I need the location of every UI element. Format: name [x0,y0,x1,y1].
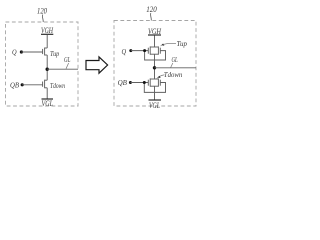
wire GL output (right) [155,67,197,69]
svg-text:Tup: Tup [50,50,60,58]
wire GL output (left) [47,68,78,70]
junction node (left output) [46,68,49,71]
wire Tdown source to VGL [46,88,48,99]
wire QB to Tdown gate [22,84,42,86]
wire VGH to Tup (right) [154,36,156,48]
svg-text:Q: Q [122,47,127,56]
wire Q to gates (right) [131,50,149,52]
svg-text:120: 120 [37,5,48,15]
transistor Tup dual (right) [148,46,160,54]
svg-text:Tdown: Tdown [164,71,183,79]
VGL supply (left) [42,98,54,100]
svg-text:Tup: Tup [177,40,188,48]
svg-text:Tdown: Tdown [50,82,65,90]
VGL supply (right) [149,99,162,101]
gate loop wire Tdown (right) [144,83,165,93]
leader arrow Tup (right) [164,43,176,44]
wire QB to gates (right) [130,82,148,84]
svg-text:120: 120 [146,4,157,14]
leader 120 (left) [41,15,44,22]
svg-text:QB: QB [10,81,19,90]
left dashed block 120 [6,22,79,106]
svg-text:Q: Q [12,48,17,57]
wire Tup source to node [46,55,48,80]
right dashed block 120 [114,21,196,107]
transistor Tdown (left) [43,80,48,89]
svg-text:QB: QB [118,78,128,87]
svg-text:VGH: VGH [41,26,54,35]
wire Q to Tup gate [21,51,42,53]
leader GL (left) [66,63,69,69]
wire Tdown source to VGL (right) [154,86,156,100]
svg-text:GL: GL [172,56,178,64]
transistor Tup (left) [43,48,48,56]
block arrow [86,57,108,73]
svg-text:GL: GL [64,56,71,64]
leader GL (right) [171,63,173,68]
svg-text:VGL: VGL [42,99,54,108]
leader 120 (right) [150,13,153,20]
leader arrow Tdown (right) [159,75,164,77]
junction node output (right) [153,66,156,69]
wire VGH to Tup drain [46,35,48,48]
wire Tup source to node (right) [154,54,156,79]
junction gate branch Tdown (right) [143,81,146,84]
gate loop wire Tup (right) [145,51,166,60]
junction gate branch Tup (right) [143,49,146,52]
transistor Tdown dual (right) [148,78,160,86]
svg-text:VGL: VGL [149,101,160,110]
